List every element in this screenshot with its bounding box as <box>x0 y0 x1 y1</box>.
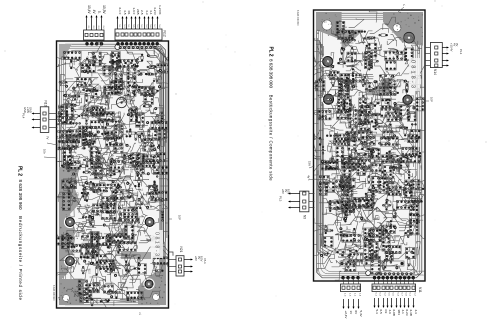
left board large pad <box>64 255 76 267</box>
left board component cluster <box>80 230 111 262</box>
connector bottom 4pin wires <box>343 278 360 309</box>
svg-text:0-5: 0-5 <box>379 310 383 315</box>
left board component cluster <box>106 195 143 245</box>
left board component cluster <box>139 179 179 208</box>
right board gray triangle 2 <box>363 77 389 95</box>
right board component cluster <box>348 195 379 230</box>
right board component cluster <box>326 139 369 179</box>
svg-text:R77: R77 <box>65 234 67 239</box>
connector block top-left 4pin <box>84 30 104 40</box>
right board component cluster <box>304 88 339 120</box>
svg-text:4-2 D: 4-2 D <box>153 7 157 15</box>
svg-text:4-3: 4-3 <box>414 310 418 315</box>
svg-text:C103: C103 <box>349 101 351 107</box>
left board component cluster <box>47 121 88 154</box>
left board component cluster <box>108 128 158 160</box>
right board component cluster <box>299 170 344 205</box>
connector N21 labels <box>194 256 204 262</box>
svg-text:D21: D21 <box>363 53 365 58</box>
connector N11 wires <box>374 278 415 308</box>
left board component cluster <box>66 201 100 236</box>
label 10P right <box>425 97 434 102</box>
svg-text:2K5: 2K5 <box>136 9 140 15</box>
board id text top-left right board <box>296 10 299 26</box>
svg-text:D21: D21 <box>361 115 363 120</box>
left board perimeter traces <box>62 46 164 303</box>
svg-text:R42: R42 <box>404 203 406 208</box>
right board perimeter traces <box>319 15 420 276</box>
label N11 <box>418 287 422 293</box>
svg-text:C3: C3 <box>384 310 388 314</box>
svg-text:C103: C103 <box>408 182 410 188</box>
right board component cluster <box>343 236 385 275</box>
connector N12 pin numbers <box>118 25 160 29</box>
svg-text:N12: N12 <box>163 31 167 37</box>
caption description right <box>269 95 274 182</box>
right board big pad top-right <box>404 32 415 43</box>
connector top-left pin labels <box>87 5 106 14</box>
right board component cluster <box>365 233 410 276</box>
caption number left <box>18 180 23 210</box>
label N12 <box>163 31 167 37</box>
right board silk text 0818-3 <box>410 60 416 88</box>
svg-text:Bedruckungsseite / Printed sid: Bedruckungsseite / Printed side <box>18 216 23 300</box>
svg-text:10,4V: 10,4V <box>87 5 91 14</box>
svg-text:R77: R77 <box>138 132 140 137</box>
right board component cluster <box>365 196 418 235</box>
svg-text:5.: 5. <box>97 11 101 14</box>
left board component cluster <box>116 247 155 290</box>
left board component cluster <box>138 224 176 257</box>
left board component cluster <box>63 96 108 131</box>
svg-text:R115: R115 <box>87 268 89 274</box>
left board component cluster <box>49 147 87 186</box>
svg-text:4-1: 4-1 <box>401 310 405 315</box>
svg-text:4V: 4V <box>307 175 311 179</box>
svg-text:C12: C12 <box>340 260 342 265</box>
right board component cluster <box>395 190 430 224</box>
label 7V <box>46 136 58 145</box>
svg-text:0-23: 0-23 <box>405 310 409 316</box>
caption PL 2 right <box>267 47 273 57</box>
svg-text:R42: R42 <box>62 139 64 144</box>
right board component cluster <box>329 113 376 150</box>
svg-text:R77: R77 <box>93 242 95 247</box>
right board connector N11 pad field <box>341 272 415 279</box>
right board component cluster <box>317 86 358 132</box>
right board component cluster <box>379 17 414 46</box>
svg-text:N11: N11 <box>418 287 422 293</box>
right board component cluster <box>373 166 404 203</box>
right board large pad <box>322 93 335 106</box>
left board large pad <box>143 278 154 289</box>
label 10b <box>43 149 58 158</box>
svg-text:R77: R77 <box>86 116 88 121</box>
label N13 <box>44 101 48 107</box>
right board component cluster <box>306 114 339 145</box>
label PL3 <box>279 196 283 202</box>
right board component cluster <box>394 159 435 206</box>
right board component cluster <box>298 61 344 95</box>
svg-text:R77: R77 <box>161 61 163 66</box>
connector N12 pin wires <box>117 16 159 44</box>
label 2. <box>139 312 142 316</box>
left board copper pour contour <box>60 44 166 305</box>
connector N11 labels <box>375 293 418 316</box>
right board gray rect top-left <box>316 12 342 40</box>
right board component cluster <box>366 38 406 70</box>
connector N21 wires <box>169 252 177 272</box>
svg-text:5-3: 5-3 <box>375 310 379 315</box>
left board component cluster <box>118 95 150 129</box>
svg-text:8 638 398 000: 8 638 398 000 <box>269 59 274 88</box>
left board component cluster <box>130 144 186 178</box>
svg-text:PL4: PL4 <box>22 113 26 119</box>
left board round hole H1 <box>116 97 126 107</box>
right board component cluster <box>358 9 389 55</box>
right board component cluster <box>385 213 427 249</box>
left board component cluster <box>88 117 129 163</box>
right board large pad <box>321 55 334 68</box>
connector block N9 <box>300 191 309 212</box>
right board component cluster <box>385 90 437 122</box>
connector N14 wires <box>425 47 449 67</box>
svg-text:PL1: PL1 <box>203 259 207 265</box>
svg-text:4-1: 4-1 <box>149 10 153 15</box>
svg-text:D21: D21 <box>404 138 406 143</box>
left board component cluster <box>140 68 176 110</box>
svg-text:3B4: 3B4 <box>397 310 401 316</box>
left board component cluster <box>78 147 116 179</box>
right board gray region top-right <box>383 12 423 46</box>
right board component cluster <box>347 43 381 81</box>
left board component cluster <box>99 270 138 303</box>
right board component cluster <box>359 86 413 124</box>
right board silk text underlay <box>409 58 420 91</box>
left board gray patch row8 <box>121 252 151 259</box>
svg-text:D21: D21 <box>406 83 408 88</box>
left board bottom-right pour blob <box>138 241 166 305</box>
svg-text:C55: C55 <box>130 169 132 174</box>
left board component cluster <box>41 86 91 131</box>
right board component cluster <box>404 36 422 79</box>
left board component cluster <box>49 178 90 211</box>
right board component cluster <box>379 147 413 179</box>
left board large pad <box>64 216 76 228</box>
label 7. <box>398 3 406 12</box>
right board component cluster <box>306 142 343 178</box>
svg-text:1-6 F: 1-6 F <box>132 7 136 14</box>
connector N9 labels <box>281 189 291 195</box>
svg-text:C12: C12 <box>351 85 353 90</box>
svg-text:N9: N9 <box>303 215 307 219</box>
label 15V <box>308 161 315 168</box>
left board component cluster <box>76 120 119 166</box>
left board component cluster <box>144 252 169 276</box>
svg-text:R115: R115 <box>393 152 395 158</box>
svg-text:R77: R77 <box>394 83 396 88</box>
svg-text:6-0B: 6-0B <box>392 310 396 316</box>
label N14 <box>433 69 437 75</box>
svg-text:2-3B: 2-3B <box>409 310 413 316</box>
svg-text:15V: 15V <box>308 161 312 166</box>
right board component cluster <box>331 18 365 46</box>
svg-text:N14: N14 <box>433 69 437 75</box>
svg-text:R77: R77 <box>110 131 112 136</box>
svg-text:5,4V: 5,4V <box>359 311 363 317</box>
svg-text:2.: 2. <box>139 312 142 316</box>
svg-text:C103: C103 <box>346 138 348 144</box>
svg-text:PL1: PL1 <box>459 49 463 55</box>
svg-text:R42: R42 <box>320 102 322 107</box>
caption PL 2 left <box>16 166 22 176</box>
svg-text:1-2 DX: 1-2 DX <box>158 5 162 14</box>
right board component cluster <box>375 62 411 96</box>
svg-text:N13: N13 <box>44 101 48 107</box>
left board component cluster <box>74 195 117 237</box>
svg-text:PL3: PL3 <box>279 196 283 202</box>
connector top-left pin wires <box>86 15 103 44</box>
left board bottom-left pour blob <box>59 279 84 305</box>
left board component cluster <box>97 98 135 134</box>
connector bottom 4pin labels <box>344 293 363 318</box>
left board component cluster <box>67 279 110 312</box>
connector top-left pin numbers <box>87 26 104 30</box>
right board long component bottom <box>340 261 404 266</box>
pour speckle texture <box>58 12 423 305</box>
left board large pad <box>144 216 156 228</box>
svg-text:R115: R115 <box>85 160 87 166</box>
right board component cluster <box>313 251 346 272</box>
right board component cluster <box>394 136 432 174</box>
left board component cluster <box>76 42 121 76</box>
svg-text:C103: C103 <box>391 205 393 211</box>
svg-text:C12: C12 <box>364 85 366 90</box>
svg-text:C55: C55 <box>75 192 77 197</box>
caption number right <box>269 59 274 88</box>
right board diamond outline <box>367 207 387 229</box>
left board top hole <box>115 44 120 49</box>
right board component cluster <box>319 199 348 218</box>
left board component cluster <box>90 168 133 210</box>
svg-text:7V: 7V <box>46 136 50 140</box>
left board component cluster <box>61 239 114 291</box>
right board bottom hole <box>366 271 371 276</box>
connector block N21 <box>176 256 184 276</box>
right board component cluster <box>358 89 390 127</box>
label PL4 <box>22 113 26 119</box>
left board silk text 0818-3 <box>154 232 160 256</box>
svg-text:8 638 398 960: 8 638 398 960 <box>52 285 55 301</box>
left board component cluster <box>138 105 171 133</box>
svg-text:R115: R115 <box>128 70 130 76</box>
right board component cluster <box>347 108 401 149</box>
right board component cluster <box>344 160 387 209</box>
svg-text:0V: 0V <box>455 43 459 46</box>
svg-text:8 638 208 950: 8 638 208 950 <box>296 10 299 26</box>
svg-text:R42: R42 <box>135 211 137 216</box>
right board gray triangle 1 <box>342 30 364 52</box>
right board component cluster <box>348 69 393 96</box>
right board component cluster <box>335 212 362 254</box>
right board component cluster <box>337 42 376 71</box>
svg-text:10,3V: 10,3V <box>102 5 106 14</box>
left board component cluster <box>97 246 141 285</box>
left board component cluster <box>81 68 144 109</box>
connector block N13 <box>40 107 49 133</box>
left board component cluster <box>89 52 124 91</box>
svg-text:C103: C103 <box>76 163 78 169</box>
left board component cluster <box>107 143 150 195</box>
svg-text:GND: GND <box>29 107 33 113</box>
connector block N12 10pin <box>115 29 162 40</box>
label PL1 right <box>203 259 207 265</box>
svg-text:1V: 1V <box>349 311 353 315</box>
left board right edge trace bus <box>150 46 169 251</box>
svg-text:R77: R77 <box>418 165 420 170</box>
left board component cluster <box>110 224 154 265</box>
connector N14 labels <box>450 43 460 52</box>
left board silk text underlay <box>151 230 163 258</box>
left board component cluster <box>46 51 81 77</box>
svg-text:+2,4V: +2,4V <box>344 311 348 319</box>
right board component cluster <box>405 242 437 276</box>
svg-text:C12: C12 <box>85 57 87 62</box>
svg-text:8,5V: 8,5V <box>200 256 204 262</box>
caption description left <box>18 216 23 300</box>
svg-text:R115: R115 <box>361 231 363 237</box>
label N9 <box>303 215 307 219</box>
right board component cluster <box>345 134 398 176</box>
svg-text:C12: C12 <box>376 114 378 119</box>
svg-text:PL 2: PL 2 <box>267 47 273 57</box>
right board component cluster <box>312 38 336 73</box>
svg-text:R77: R77 <box>154 120 156 125</box>
left board component cluster <box>67 66 123 103</box>
right board copper contour <box>317 13 422 278</box>
svg-text:N21: N21 <box>179 247 183 253</box>
left board component cluster <box>89 146 137 179</box>
board id text bottom-left <box>52 285 55 301</box>
svg-text:R42: R42 <box>158 157 160 162</box>
svg-text:10P: 10P <box>178 215 182 220</box>
connector N13 wires <box>32 113 58 129</box>
svg-text:C12: C12 <box>412 103 414 108</box>
svg-text:10b: 10b <box>43 149 47 154</box>
svg-text:Bestückungsseite / Componente: Bestückungsseite / Componente side <box>269 95 274 182</box>
connector block N11 10pin <box>372 284 416 292</box>
connector block bottom 4pin <box>341 284 361 292</box>
svg-text:R77: R77 <box>151 83 153 88</box>
left board component cluster <box>51 74 83 105</box>
right board component cluster <box>386 65 433 94</box>
label 10P <box>169 215 182 220</box>
right board component cluster <box>365 216 423 251</box>
svg-text:4-3: 4-3 <box>145 10 149 15</box>
left board component cluster <box>131 195 177 236</box>
left board ground pour left strip <box>59 167 80 279</box>
label N21 <box>179 247 183 253</box>
svg-text:4-5: 4-5 <box>123 10 127 15</box>
label PL1 far right <box>459 49 463 55</box>
left board gray triangle mid <box>113 224 128 237</box>
right board PL2 outline <box>314 10 426 281</box>
right board component cluster <box>374 115 414 153</box>
svg-text:8,5V: 8,5V <box>287 189 291 195</box>
svg-text:10P: 10P <box>430 97 434 102</box>
connector N21 arrows <box>184 259 193 273</box>
svg-text:0V: 0V <box>354 311 358 315</box>
svg-text:D1: D1 <box>127 11 131 15</box>
left board component cluster <box>112 77 154 114</box>
connector block N14 <box>430 43 442 68</box>
svg-text:C103: C103 <box>346 185 348 191</box>
left board component cluster <box>118 47 153 87</box>
right board component cluster <box>347 222 390 251</box>
right board component cluster <box>391 119 432 159</box>
svg-text:4-6: 4-6 <box>388 310 392 315</box>
connector N13 labels <box>23 107 33 113</box>
left board component cluster <box>78 199 132 236</box>
left board component cluster <box>111 173 148 220</box>
left board component cluster <box>114 275 159 306</box>
svg-text:R42: R42 <box>114 242 116 247</box>
left board connector N12 pad field <box>85 42 159 49</box>
svg-text:D21: D21 <box>363 262 365 267</box>
right board component cluster <box>327 188 370 229</box>
connector N12 pin labels <box>118 5 162 15</box>
connector N9 wires <box>288 193 315 209</box>
svg-text:PL 2: PL 2 <box>16 166 22 176</box>
svg-text:8 638 398 960: 8 638 398 960 <box>18 180 23 210</box>
left board component cluster <box>48 258 80 281</box>
left board PL2 outline <box>57 41 169 308</box>
svg-text:2-5: 2-5 <box>140 10 144 15</box>
right board component cluster <box>332 159 365 205</box>
left board component cluster <box>90 216 137 270</box>
svg-text:C55: C55 <box>116 266 118 271</box>
right board left edge trace bundle <box>318 38 337 258</box>
left board component cluster <box>64 166 117 217</box>
svg-text:6-1 F: 6-1 F <box>118 7 122 14</box>
label 4V <box>307 175 315 180</box>
svg-text:7.: 7. <box>403 3 406 7</box>
left board component cluster <box>51 220 86 269</box>
right board large pad <box>401 93 414 106</box>
left board component cluster <box>141 128 175 164</box>
right board component cluster <box>334 235 363 283</box>
right board component cluster <box>307 218 334 247</box>
svg-text:C55: C55 <box>397 161 399 166</box>
left board top-left corner patch <box>59 44 72 60</box>
right board component cluster <box>326 72 364 101</box>
left board component cluster <box>124 47 169 85</box>
svg-text:C12: C12 <box>342 206 344 211</box>
